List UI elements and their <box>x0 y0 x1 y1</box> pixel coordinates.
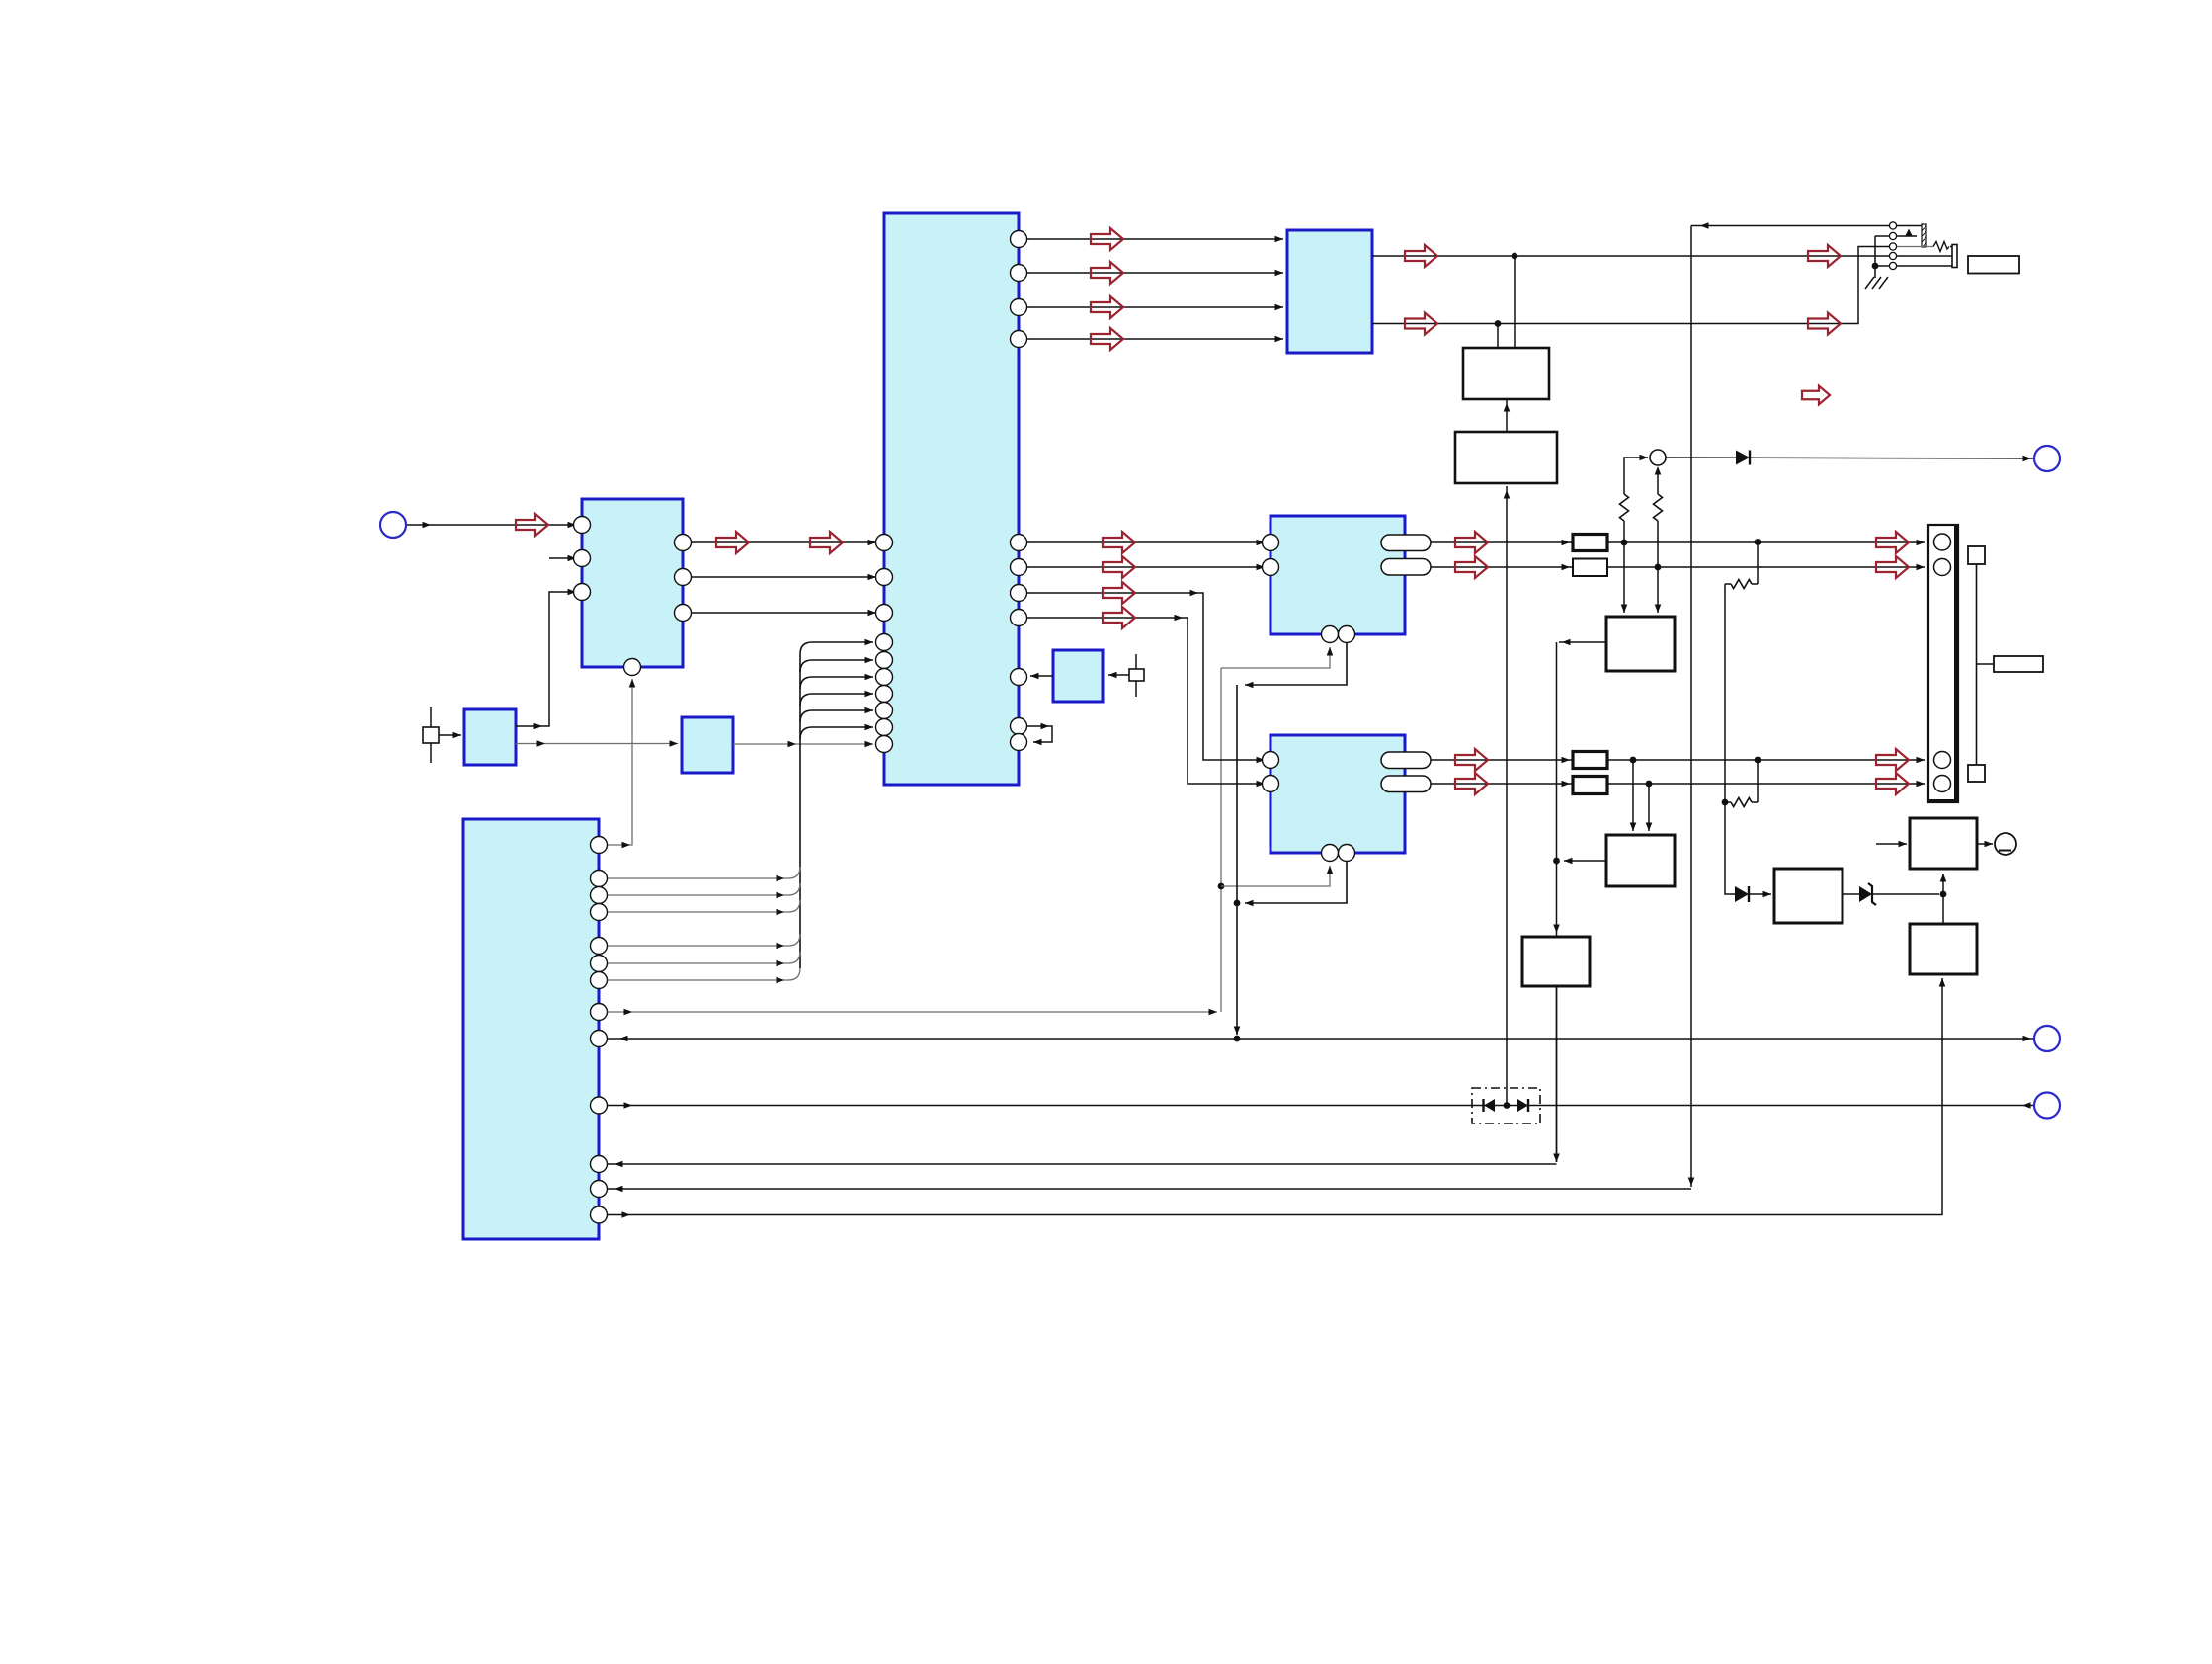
junction node on U4 out2 <box>1495 320 1502 327</box>
connector CN1 pin4 <box>1934 776 1951 792</box>
bidirectional diode pack D3 (dash-dot box) <box>1472 1088 1540 1123</box>
jack contact y=259 <box>1889 252 1896 259</box>
wire bus entry elbow <box>788 952 800 963</box>
connector circle CN2 <box>2034 446 2060 471</box>
wire U6 bottom pin2 to net <box>1245 862 1347 903</box>
oscillator X1 <box>464 709 516 765</box>
wire U2 to U4 at y=276 <box>1026 272 1283 274</box>
pin U3 right y=889 <box>591 871 608 887</box>
wire B8 to motor <box>1977 843 1993 845</box>
wire bus entry elbow <box>788 934 800 946</box>
IC U3 system controller (bottom left) <box>463 819 599 1239</box>
signal-flow arrow U6 L b <box>1876 749 1909 771</box>
wire U3 pin to bus y=923 <box>607 911 788 913</box>
pin U3 right y=1024 <box>591 1004 608 1021</box>
signal-flow arrow input <box>516 514 548 536</box>
jack contact y=228.5 <box>1889 222 1896 229</box>
wire black net vertical x=1252 <box>1236 685 1238 1035</box>
resistor R24 zigzag <box>1731 798 1752 807</box>
junction tap to B5 <box>1630 757 1637 764</box>
pin U5 bottom b <box>1339 626 1355 643</box>
wire junction up to B8 <box>1942 874 1944 894</box>
wire U2 to U5 ch2 <box>1026 566 1265 568</box>
pin U2 right y=276 <box>1011 265 1027 282</box>
signal-flow arrow U2-U4 <box>1091 328 1123 350</box>
pin U3 right y=923 <box>591 904 608 921</box>
junction node on U4 out1 <box>1512 253 1518 260</box>
wire tap down to B4 right <box>1657 567 1659 613</box>
stub wire into B8 <box>1876 843 1907 845</box>
box B9 power detect <box>1910 924 1977 974</box>
wire R24 left stub <box>1725 801 1731 803</box>
pin U3 right y=1203 <box>591 1181 608 1198</box>
signal-flow arrow U2-U4 <box>1091 228 1123 250</box>
wire U3 pin13 to B9 bottom <box>607 978 1942 1215</box>
wire branch to U6 bottom pin1 <box>1221 866 1330 886</box>
pin U3 right y=975 <box>591 956 608 972</box>
resistor box R12 <box>1573 559 1607 577</box>
pin U2 right y=311 <box>1011 299 1027 316</box>
wire X1 clock out to X2 <box>516 743 678 745</box>
signal-flow arrow U5 L a <box>1455 532 1488 553</box>
connector CN1 body <box>1928 525 1958 802</box>
wire jack tip return <box>1691 225 1889 227</box>
wire U1 to U2 line3 <box>691 612 876 614</box>
wire bus elbow to U2 pin y=719 <box>800 710 873 722</box>
terminal square SQ1 <box>1968 546 1985 564</box>
jack contact-2 wire <box>1897 235 1917 237</box>
jack contact y=249.5 <box>1889 243 1896 250</box>
wire tap to B5 input a <box>1632 760 1634 831</box>
wire U3 pin to bus y=906 <box>607 894 788 896</box>
jack contact y=239 <box>1889 232 1896 239</box>
junction power node <box>1940 891 1947 898</box>
wire bus entry elbow <box>788 867 800 878</box>
pin U2 left y=584 <box>876 569 893 586</box>
wire U2 to U5 ch1 <box>1026 541 1265 543</box>
pin U2 right y=735 <box>1011 718 1027 735</box>
diode D3b (right) <box>1517 1099 1528 1112</box>
signal-flow arrow U5 R a <box>1455 556 1488 578</box>
junction R21 tap <box>1621 540 1628 546</box>
resistor box R14 <box>1573 777 1607 794</box>
pin U6 left y=769 <box>1263 752 1279 769</box>
box B2 limiter <box>1455 432 1557 483</box>
jack ring wire <box>1897 246 1933 248</box>
wire R23 left stub <box>1725 583 1731 585</box>
wire bus elbow to U2 pin y=702 <box>800 694 873 706</box>
pin U2 right y=685 <box>1011 669 1027 686</box>
junction gray net <box>1218 883 1225 890</box>
wire B2 to B1 <box>1506 399 1508 432</box>
signal-flow arrow U2-U5 ch2 <box>1103 556 1135 578</box>
junction R24 tap <box>1755 757 1761 764</box>
resistor box R13 <box>1573 752 1607 769</box>
wire bus elbow to U2 pin y=650 <box>800 642 873 654</box>
wire U4 output-2 to jack ring <box>1372 247 1889 324</box>
pin U2 right y=343 <box>1011 331 1027 348</box>
pin U3 right y=957 <box>591 938 608 955</box>
wire U1 to U2 data <box>691 541 876 543</box>
wire B7 to zener ZD1 <box>1843 893 1859 895</box>
signal-flow arrow U5 R b <box>1876 556 1909 578</box>
wire R21 to sum node <box>1624 458 1648 494</box>
connector CN1 bottom edge <box>1928 799 1958 803</box>
wire B4 out to x1575 net <box>1559 641 1606 643</box>
junction jack ground <box>1872 263 1879 270</box>
junction R23 tap <box>1755 539 1761 545</box>
wire B5 out to x1575 net <box>1564 860 1606 862</box>
pin U2 right y=751 <box>1011 734 1027 751</box>
wire vertical net x=1575 <box>1556 642 1558 1162</box>
IC U4 driver (top right) <box>1287 230 1372 353</box>
wire U3 pin to bus y=992 <box>607 979 788 981</box>
wire U2 to U4 at y=311 <box>1026 306 1283 308</box>
jack spring contact zigzag <box>1933 242 1949 252</box>
signal-flow arrow U1-U2 b <box>810 532 843 553</box>
signal-flow arrow U5 L b <box>1876 532 1909 553</box>
oscillator X3 <box>1053 650 1103 702</box>
resistor R23 zigzag <box>1731 580 1752 589</box>
jack sleeve wire <box>1897 265 1953 267</box>
oscillator X2 <box>682 717 733 773</box>
box B7 regulator <box>1774 869 1843 923</box>
junction black net <box>1234 900 1241 907</box>
box B4 level detector <box>1606 617 1675 671</box>
wire U2 to U4 at y=343 <box>1026 338 1283 340</box>
wire U3 pin10 to output connector CN4 <box>607 1105 2034 1107</box>
pin U3 right y=1051 <box>591 1031 608 1047</box>
wire tap down to box B1 <box>1497 324 1499 349</box>
pin U2 left y=702 <box>876 686 893 703</box>
connector circle CN4 <box>2034 1093 2060 1119</box>
wire tap down to B4 left <box>1623 542 1625 613</box>
wire U4 output-1 to jack <box>1372 255 1889 257</box>
pin U3 right y=1118.5 <box>591 1097 608 1114</box>
wire U6 out L to connector <box>1431 759 1925 761</box>
motor M1 circle <box>1995 833 2016 855</box>
signal-flow arrow U4 out1 b <box>1808 245 1841 267</box>
wire jack contact2 to ground <box>1874 236 1876 266</box>
signal-flow arrow U2-U4 <box>1091 296 1123 318</box>
wire bus entry elbow <box>788 900 800 912</box>
wire input connector to U1 <box>406 524 576 526</box>
pin U2 left y=719 <box>876 703 893 719</box>
wire sum node to connector CN2 <box>1666 458 2034 458</box>
jack switch triangle <box>1905 229 1913 237</box>
pin U2 left y=620 <box>876 605 893 622</box>
wire bus entry elbow <box>788 968 800 980</box>
wire bus vertical fan-in <box>799 654 801 968</box>
wire X3 out to U2 <box>1030 675 1053 677</box>
box B5 detector <box>1606 835 1675 886</box>
wire junction down to B9 <box>1942 894 1944 924</box>
wire U1 to U2 line2 <box>691 576 876 578</box>
pill output U5 R <box>1381 559 1431 576</box>
signal-flow arrow U2-U6 ch1 <box>1103 582 1135 604</box>
signal-flow arrow U4 out1 a <box>1405 245 1437 267</box>
junction R22 tap <box>1655 564 1662 571</box>
signal-flow arrow U2-U6 ch2 <box>1103 607 1135 628</box>
wire U3 pin to bus y=889 <box>607 877 788 879</box>
wire bus elbow to U2 pin y=736 <box>800 727 873 739</box>
pin U6 bottom a <box>1322 845 1339 862</box>
box B8 motor driver <box>1910 818 1977 869</box>
pin U2 left y=668 <box>876 652 893 669</box>
diode D1 <box>1736 451 1750 465</box>
signal-flow arrow U4 out2 a <box>1405 313 1437 335</box>
signal-flow arrow U6 R b <box>1876 773 1909 794</box>
wire bus elbow to U2 pin y=668 <box>800 660 873 672</box>
connector CN1 thick edge <box>1954 525 1959 802</box>
wire SQ1 to SQ2 <box>1976 564 1978 765</box>
crystal Y1 <box>430 707 432 727</box>
wire R23 right stub <box>1752 583 1758 585</box>
label box jack <box>1968 256 2019 274</box>
pin U2 left y=650 <box>876 634 893 651</box>
pin U3 right y=1229.5 <box>591 1206 608 1223</box>
jack contact y=269 <box>1889 262 1896 269</box>
pin U3 right y=906 <box>591 887 608 904</box>
pin U3 right y=855 <box>591 837 608 854</box>
IC U2 digital signal processor (large center block) <box>884 213 1019 785</box>
ground symbol GND1 <box>1865 277 1874 289</box>
pin U2 left y=549 <box>876 535 893 551</box>
pin U3 right y=992 <box>591 972 608 989</box>
zener diode ZD1 <box>1859 886 1872 902</box>
pin U6 bottom b <box>1339 845 1355 862</box>
pin U2 right y=549 <box>1011 535 1027 551</box>
wire U5 out R to connector <box>1431 566 1925 568</box>
signal-flow arrow U2-U5 ch1 <box>1103 532 1135 553</box>
wire U5 bottom pin2 to net <box>1245 643 1347 685</box>
wire gray net vertical x=1236 <box>1220 668 1222 1012</box>
wire U5 out L to connector <box>1431 541 1925 543</box>
resistor R22 zigzag <box>1654 494 1663 521</box>
pin U2 right y=242 <box>1011 231 1027 248</box>
IC U5 DAC upper <box>1270 516 1405 634</box>
pill output U5 L <box>1381 535 1431 551</box>
wire U2 to U6 ch2 <box>1026 618 1265 784</box>
resistor box R11 <box>1573 535 1607 551</box>
pin U1 left y=599 <box>574 584 591 601</box>
pill output U6 R <box>1381 776 1431 792</box>
jack ring wire 2 <box>1950 246 1953 248</box>
pill output U6 L <box>1381 752 1431 769</box>
pin U1 right y=620 <box>675 605 692 622</box>
resistor R21 zigzag <box>1620 494 1629 521</box>
wire tap to B5 input b <box>1648 784 1650 831</box>
pin U1 right y=584 <box>675 569 692 586</box>
wire U3 pin8 mute line <box>607 1011 1217 1013</box>
wire U2 to U6 ch1 <box>1026 593 1265 760</box>
standalone signal-flow arrow <box>1802 386 1830 405</box>
connector CN1 pin1 <box>1934 534 1951 550</box>
wire crystal Y2 to X3 <box>1108 674 1129 676</box>
junction net x1252 on pin9 wire <box>1234 1036 1241 1042</box>
wire X1 clock to U1 pin3 <box>516 592 576 726</box>
wire R22 lower <box>1657 521 1659 567</box>
long vertical wire limiter to B2 <box>1506 486 1508 1103</box>
connector circle CN3 <box>2034 1026 2060 1051</box>
junction tap to B5 <box>1646 781 1653 788</box>
wire dot to R21 <box>1623 521 1625 542</box>
junction center of D3 <box>1504 1102 1511 1109</box>
wire R24 right stub <box>1752 801 1758 803</box>
pin U6 left y=793 <box>1263 776 1279 792</box>
motor minus mark <box>1999 850 2011 852</box>
IC U1 RF amp block (upper left) <box>582 499 683 667</box>
signal-flow arrow U6 L a <box>1455 749 1488 771</box>
wire dot down to R24 <box>1757 760 1759 802</box>
pin U5 left y=574 <box>1263 559 1279 576</box>
pin U2 left y=736 <box>876 719 893 736</box>
pin U3 right y=1178 <box>591 1156 608 1173</box>
wire U3 pin1 to U1 bottom <box>607 679 632 845</box>
signal-flow arrow U2-U4 <box>1091 262 1123 284</box>
wire bus entry elbow <box>788 883 800 895</box>
pin U5 left y=549 <box>1263 535 1279 551</box>
wire rail x=1746 <box>1724 584 1726 802</box>
jack sleeve bar <box>1952 245 1957 268</box>
box B6 <box>1522 937 1590 986</box>
jack insulator hatched bar <box>1922 224 1926 247</box>
long vertical wire jack to U3 pin12 <box>1690 226 1692 1188</box>
wire net x1575 to U3 pin11 <box>607 1163 1557 1165</box>
wire U6 out R to connector <box>1431 783 1925 785</box>
signal-flow arrow U6 R a <box>1455 773 1488 794</box>
wire to ground <box>1874 266 1876 278</box>
junction rail <box>1722 799 1729 806</box>
pin U2 right y=600 <box>1011 585 1027 602</box>
crystal Y2 <box>1135 654 1137 669</box>
signal-flow arrow U1-U2 a <box>716 532 749 553</box>
wire branch to U5 bottom pin1 <box>1221 647 1330 668</box>
wire bus elbow to U2 pin y=685 <box>800 677 873 689</box>
pin U5 bottom a <box>1322 626 1339 643</box>
diode D3a (left) <box>1484 1099 1495 1112</box>
pin U2 right y=625 <box>1011 610 1027 626</box>
wire ZD1 to junction <box>1872 893 1939 895</box>
label box connector <box>1994 656 2043 672</box>
wire tap down to box B1 <box>1514 256 1516 348</box>
jack tip wire <box>1897 225 1922 227</box>
terminal square SQ2 <box>1968 765 1985 782</box>
connector CN1 pin3 <box>1934 752 1951 769</box>
wire D2 to B7 <box>1749 893 1771 895</box>
wire rail to D2 <box>1725 802 1735 894</box>
wire crystal Y1 to X1 <box>439 734 461 736</box>
pin U1 left y=531 <box>574 517 591 534</box>
pin U1 right y=549 <box>675 535 692 551</box>
summing node circle <box>1650 450 1666 465</box>
box B1 mute control <box>1463 348 1549 399</box>
stub wire U1 pin2 <box>549 557 576 559</box>
pin U2 left y=685 <box>876 669 893 686</box>
pin U1 bottom <box>624 659 641 676</box>
connector circle CN0 input <box>380 512 406 538</box>
signal-flow arrow U4 out2 b <box>1808 313 1841 335</box>
pin U2 right y=574 <box>1011 559 1027 576</box>
wire U2 feedback loop <box>1026 726 1052 742</box>
diode D2 <box>1735 886 1749 902</box>
wire X2 clock to U2 fan pin <box>733 743 873 745</box>
wire U3 pin to bus y=975 <box>607 962 788 964</box>
pin U1 left y=565 <box>574 550 591 567</box>
pin U2 left y=753 <box>876 736 893 753</box>
junction x1575 net <box>1553 858 1560 865</box>
wire U3 pin9 to output connector CN3 <box>607 1038 2034 1040</box>
wire U3 pin to bus y=957 <box>607 945 788 947</box>
wire dot down to R23 <box>1757 542 1759 585</box>
wire B6 bottom to U3 pin11 tee <box>1556 986 1558 1162</box>
IC U6 DAC lower <box>1270 735 1405 853</box>
wire U2 to U4 at y=242 <box>1026 238 1283 240</box>
connector CN1 pin2 <box>1934 559 1951 576</box>
wire tick to label box <box>1977 663 1995 665</box>
wire R22 upper <box>1657 469 1659 494</box>
jack contact-4 wire <box>1897 255 1953 257</box>
wire into U3 pin12 <box>607 1188 1691 1190</box>
